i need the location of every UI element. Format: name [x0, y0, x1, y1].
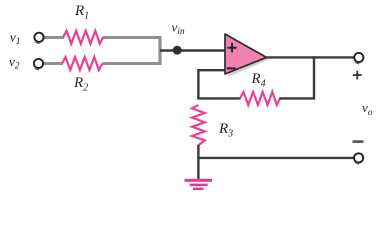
svg-text:R2: R2	[73, 75, 88, 94]
resistor R1	[63, 31, 103, 44]
output terminal plus	[354, 53, 363, 64]
wire feedback corner to R4	[197, 97, 240, 99]
wire R3 to ground	[197, 145, 199, 180]
node vin junction dot	[173, 46, 182, 55]
op-amp noninverting pin label	[227, 43, 236, 53]
wire R2 to joining bracket	[103, 62, 162, 65]
op-amp U1	[225, 34, 269, 77]
resistor R3	[192, 105, 205, 145]
label plus output polarity	[353, 71, 362, 80]
wire v2 to R2	[44, 62, 64, 65]
op-amp inverting pin label	[227, 67, 236, 69]
ground	[185, 179, 213, 190]
svg-text:vo: vo	[362, 100, 373, 118]
source terminal v1	[34, 33, 43, 44]
svg-text:vin: vin	[172, 20, 185, 38]
resistor R2	[62, 57, 103, 70]
wire v1 to R1	[44, 36, 65, 39]
svg-text:R3: R3	[218, 121, 233, 140]
wire op-amp inverting input to feedback corner	[198, 70, 226, 98]
output terminal minus	[354, 153, 363, 163]
wire bracket to op-amp noninverting input	[160, 49, 226, 51]
bottom wire to output minus terminal	[197, 157, 354, 159]
resistor R4	[240, 92, 280, 105]
svg-text:R1: R1	[74, 3, 89, 22]
wire R1 to joining bracket	[103, 36, 162, 39]
svg-text:v1: v1	[10, 30, 21, 48]
svg-text:v2: v2	[9, 54, 20, 72]
wire R4 to output node	[280, 56, 315, 98]
svg-text:R4: R4	[251, 71, 266, 90]
source terminal v2	[34, 59, 43, 70]
wire op-amp output	[265, 56, 355, 58]
label minus output polarity	[353, 140, 364, 143]
wire joining bracket vertical	[158, 36, 161, 65]
